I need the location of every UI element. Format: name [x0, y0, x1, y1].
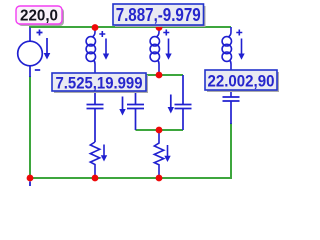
value label 7.525,19.999 — [52, 73, 148, 93]
value label 22.002,90 — [205, 70, 279, 92]
svg-text:7.525,19.999: 7.525,19.999 — [56, 74, 143, 93]
wire right vertical — [230, 123, 232, 179]
inductor L1 — [86, 27, 109, 75]
node dot top-middle junction — [156, 24, 163, 31]
capacitor C4 — [223, 97, 240, 124]
resistor R1 — [90, 142, 107, 178]
wire top bus — [30, 26, 231, 28]
node dot bottom R1 junction — [92, 175, 99, 182]
ground stub — [29, 182, 31, 187]
capacitor C2 — [119, 75, 144, 130]
resistor R2 — [154, 130, 170, 178]
capacitor C1 — [87, 75, 104, 142]
node dot lower-middle junction — [156, 127, 163, 134]
wire lower middle — [136, 129, 184, 131]
wire middle node — [95, 74, 183, 76]
node dot middle junction — [156, 72, 163, 79]
voltage source V1 — [18, 28, 51, 78]
inductor L2 — [150, 27, 172, 75]
svg-text:220,0: 220,0 — [20, 8, 58, 25]
value label 220,0 — [16, 6, 64, 26]
wire left vertical — [29, 76, 31, 178]
node dot bottom-left junction — [27, 175, 34, 182]
svg-text:7.887,-9.979: 7.887,-9.979 — [116, 5, 201, 25]
wire bottom bus — [30, 177, 231, 179]
svg-text:22.002,90: 22.002,90 — [208, 71, 275, 90]
node dot top-left junction — [92, 24, 99, 31]
capacitor C3 — [168, 75, 192, 130]
node dot bottom R2 junction — [156, 175, 163, 182]
inductor L3 — [222, 27, 245, 97]
wire label stub — [29, 24, 31, 28]
value label 7.887,-9.979 — [113, 4, 206, 27]
